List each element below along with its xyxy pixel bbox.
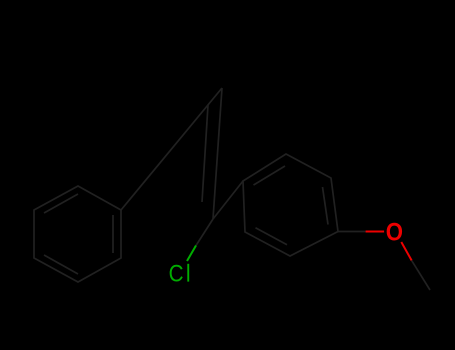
svg-text:O: O (386, 218, 403, 245)
svg-text:C: C (169, 260, 184, 287)
